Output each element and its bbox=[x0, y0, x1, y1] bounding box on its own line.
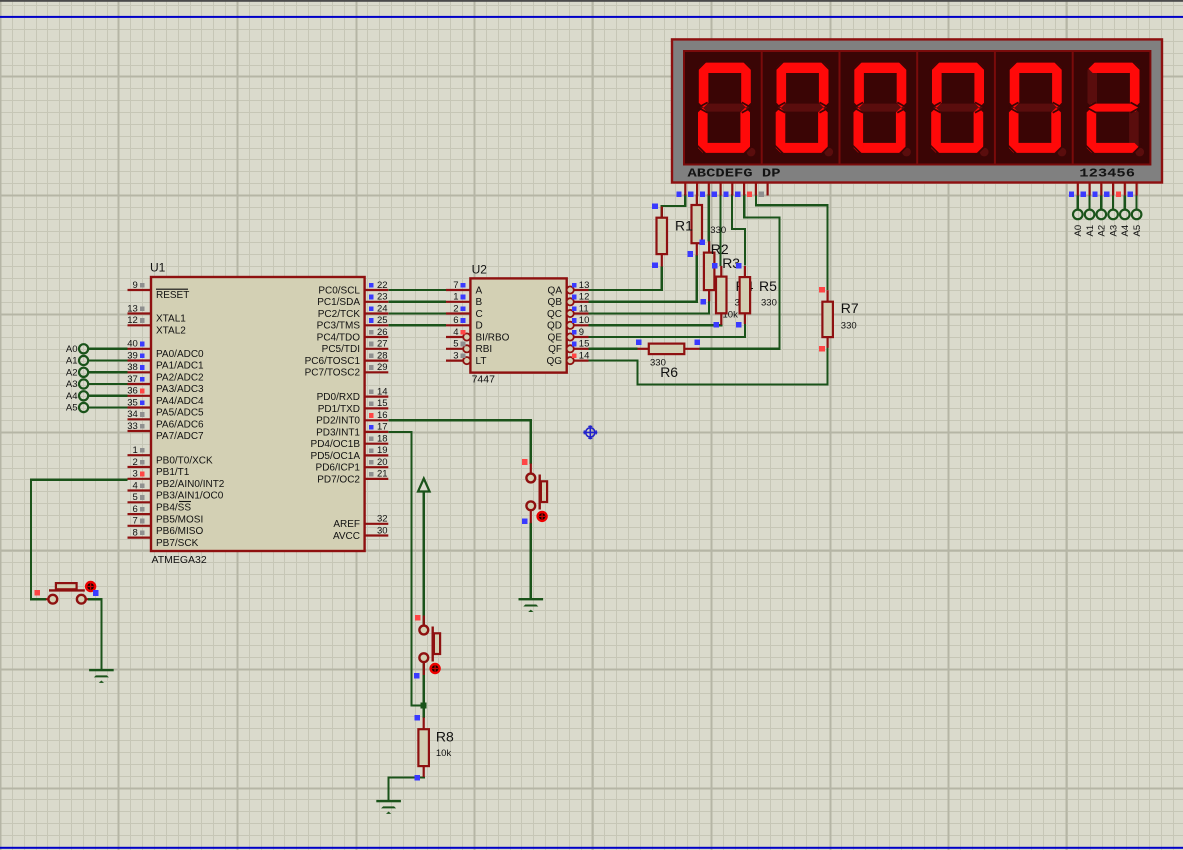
svg-text:A1: A1 bbox=[1085, 225, 1096, 237]
svg-text:9: 9 bbox=[133, 280, 138, 291]
SW2 state square (top) bbox=[522, 459, 528, 465]
wire button1 to ground bbox=[88, 599, 101, 669]
display segment pin C bbox=[700, 183, 709, 197]
wire display E to R4 bbox=[732, 194, 745, 266]
svg-text:3: 3 bbox=[453, 350, 458, 361]
SW1 state square (left) bbox=[34, 590, 40, 596]
svg-text:33: 33 bbox=[127, 421, 138, 432]
svg-text:A3: A3 bbox=[66, 379, 78, 390]
terminal A5 (left) bbox=[66, 403, 128, 414]
svg-text:16: 16 bbox=[377, 410, 388, 421]
svg-text:QB: QB bbox=[548, 297, 563, 308]
state square R8 top bbox=[415, 715, 421, 721]
terminal A2 (left) bbox=[66, 368, 128, 379]
terminal A0 (right) bbox=[1073, 210, 1084, 237]
wire R3 to QD bbox=[589, 324, 722, 325]
U1 pin 7 (PB6/MISO) bbox=[128, 516, 204, 537]
wire junction to R8 bbox=[423, 706, 425, 718]
U1 pin 17 (PD3/INT1) bbox=[316, 422, 388, 439]
U1 pin 15 (PD1/TXD) bbox=[318, 398, 389, 415]
svg-text:13: 13 bbox=[579, 280, 590, 291]
svg-text:A4: A4 bbox=[66, 391, 78, 402]
U1 pin 40 (PA0/ADC0) bbox=[127, 339, 204, 360]
IC U2 7447 body bbox=[470, 263, 566, 386]
svg-text:26: 26 bbox=[377, 327, 388, 338]
terminal A5 (right) bbox=[1132, 210, 1143, 237]
U2 pin 13 (QA) bbox=[548, 280, 590, 297]
wire R8 to ground bbox=[389, 777, 424, 801]
svg-text:PA2/ADC2: PA2/ADC2 bbox=[156, 373, 204, 384]
state square R3 top bbox=[712, 263, 718, 269]
state square R7 bottom bbox=[819, 346, 825, 352]
svg-text:5: 5 bbox=[133, 492, 138, 503]
resistor R4 (segment E) bbox=[740, 266, 751, 324]
svg-text:A4: A4 bbox=[1120, 225, 1131, 237]
svg-text:LT: LT bbox=[476, 356, 487, 367]
state square QB net bbox=[688, 251, 694, 257]
wire display A to RA bbox=[662, 194, 686, 217]
svg-text:R6: R6 bbox=[660, 364, 678, 380]
svg-text:37: 37 bbox=[127, 374, 138, 385]
wire junction at PD3/SW3/R8 bbox=[421, 703, 427, 709]
U1 pin 29 (PC7/TOSC2) bbox=[305, 362, 389, 379]
svg-text:QE: QE bbox=[548, 332, 563, 343]
svg-text:A: A bbox=[476, 285, 483, 296]
U1 pin 32 (AREF) bbox=[333, 514, 388, 531]
svg-text:12: 12 bbox=[127, 315, 138, 326]
svg-text:4: 4 bbox=[133, 480, 138, 491]
wire U1.PD3 to junction bbox=[388, 432, 423, 706]
U1 pin 25 (PC3/TMS) bbox=[317, 315, 389, 332]
U1 pin 13 (XTAL1) bbox=[127, 303, 186, 324]
svg-text:A3: A3 bbox=[1109, 225, 1120, 237]
svg-text:QA: QA bbox=[548, 285, 563, 296]
U1 pin 19 (PD5/OC1A) bbox=[311, 445, 389, 462]
U1 pin 27 (PC5/TDI) bbox=[322, 339, 389, 356]
display digit-select pin 6 bbox=[1128, 183, 1137, 210]
U1 pin 36 (PA4/ADC4) bbox=[127, 386, 204, 407]
svg-text:30: 30 bbox=[377, 525, 388, 536]
U1 pin 3 (PB2/AIN0/INT2) bbox=[128, 469, 225, 490]
svg-text:330: 330 bbox=[841, 321, 857, 332]
state square R7 top bbox=[819, 287, 825, 293]
svg-text:B: B bbox=[476, 297, 483, 308]
svg-text:34: 34 bbox=[127, 409, 138, 420]
wire U1.PD2 to button2 bbox=[388, 420, 531, 464]
push button SW1 (horizontal) bbox=[46, 582, 95, 604]
wire R1 to QB bbox=[589, 255, 697, 302]
display segment pin F bbox=[735, 183, 744, 197]
svg-text:A1: A1 bbox=[66, 356, 78, 367]
terminal A3 (left) bbox=[66, 379, 128, 390]
U1 pin 26 (PC4/TDO) bbox=[317, 327, 389, 344]
display digit 1 showing 0 bbox=[697, 60, 756, 156]
svg-text:1: 1 bbox=[453, 292, 458, 303]
svg-text:13: 13 bbox=[127, 303, 138, 314]
state square RA bottom bbox=[652, 262, 658, 268]
svg-text:22: 22 bbox=[377, 280, 388, 291]
7-segment display 6-digit module bbox=[672, 39, 1162, 182]
svg-text:PB3/AIN1/OC0: PB3/AIN1/OC0 bbox=[156, 491, 224, 502]
svg-text:PC0/SCL: PC0/SCL bbox=[318, 285, 360, 296]
push button SW2 (vertical) bbox=[526, 464, 547, 524]
resistor R6 bbox=[637, 344, 699, 380]
svg-text:A2: A2 bbox=[66, 368, 78, 379]
svg-text:PC5/TDI: PC5/TDI bbox=[322, 344, 360, 355]
display segment pin DP bbox=[759, 183, 768, 197]
display digit-select pin 3 bbox=[1092, 183, 1101, 210]
display digit-select pin 2 bbox=[1081, 183, 1090, 210]
svg-text:23: 23 bbox=[377, 292, 388, 303]
ground for R8 bbox=[376, 800, 401, 814]
svg-text:PB5/MOSI: PB5/MOSI bbox=[156, 514, 203, 525]
U1 pin 22 (PC0/SCL) bbox=[318, 280, 388, 297]
svg-text:2: 2 bbox=[453, 303, 458, 314]
U2 pin 12 (QB) bbox=[548, 292, 590, 309]
U1 pin 35 (PA5/ADC5) bbox=[127, 397, 204, 418]
U1 pin 34 (PA6/ADC6) bbox=[127, 409, 204, 430]
wire R2 to QC bbox=[589, 301, 710, 314]
svg-text:28: 28 bbox=[377, 350, 388, 361]
svg-text:330: 330 bbox=[761, 298, 777, 309]
display label 123456 bbox=[1079, 168, 1135, 181]
svg-text:11: 11 bbox=[579, 303, 589, 314]
svg-text:19: 19 bbox=[377, 445, 388, 456]
svg-text:BI/RBO: BI/RBO bbox=[476, 332, 510, 343]
wire U1.PC1 to U2.B bbox=[388, 301, 446, 303]
svg-text:12: 12 bbox=[579, 292, 590, 303]
svg-text:4: 4 bbox=[453, 327, 458, 338]
svg-text:AREF: AREF bbox=[333, 519, 360, 530]
wire U1.PB2 to button1 bbox=[31, 480, 128, 599]
svg-text:14: 14 bbox=[377, 386, 388, 397]
terminal A2 (right) bbox=[1097, 210, 1108, 237]
wire U1.PC0 to U2.A bbox=[388, 289, 446, 291]
SW3 state square (top) bbox=[415, 615, 421, 621]
display label ABCDEFG DP bbox=[688, 168, 781, 181]
SW3 state square (bottom) bbox=[414, 673, 420, 679]
svg-text:21: 21 bbox=[377, 469, 388, 480]
display digit 5 showing 0 bbox=[995, 51, 1066, 165]
wire U2.QG to R7 bbox=[589, 348, 828, 385]
svg-text:PD1/TXD: PD1/TXD bbox=[318, 404, 360, 415]
svg-text:U2: U2 bbox=[472, 263, 488, 277]
svg-text:7: 7 bbox=[453, 280, 458, 291]
U1 pin 14 (PD0/RXD) bbox=[317, 386, 389, 403]
svg-text:6: 6 bbox=[453, 315, 458, 326]
svg-text:PC6/TOSC1: PC6/TOSC1 bbox=[305, 356, 361, 367]
resistor R1 bbox=[675, 195, 726, 256]
svg-text:7447: 7447 bbox=[472, 374, 496, 386]
svg-text:29: 29 bbox=[377, 362, 388, 373]
display digit-select pin 5 bbox=[1116, 183, 1125, 210]
SW2 state square (bottom) bbox=[522, 518, 528, 524]
U2 pin 10 (QD) bbox=[547, 315, 589, 332]
state square R1 bottom bbox=[700, 239, 706, 245]
wire power to button3 bbox=[423, 492, 425, 625]
state square R4 bottom bbox=[736, 322, 742, 328]
U2 pin 15 (QF) bbox=[548, 339, 589, 356]
svg-text:PA5/ADC5: PA5/ADC5 bbox=[156, 408, 204, 419]
sheet border line bottom bbox=[0, 847, 1183, 849]
svg-text:R1: R1 bbox=[675, 218, 693, 234]
svg-text:PA1/ADC1: PA1/ADC1 bbox=[156, 361, 204, 372]
svg-text:PD7/OC2: PD7/OC2 bbox=[317, 474, 360, 485]
svg-text:PD2/INT0: PD2/INT0 bbox=[316, 416, 360, 427]
svg-text:20: 20 bbox=[377, 457, 388, 468]
resistor R3 bbox=[716, 255, 740, 325]
state square seg A corner bbox=[652, 204, 658, 210]
display segment pin E bbox=[723, 183, 732, 197]
U2 pin 5 (RBI) bbox=[446, 339, 492, 356]
svg-text:PB6/MISO: PB6/MISO bbox=[156, 526, 203, 537]
U1 pin 1 (PB0/T0/XCK) bbox=[128, 445, 214, 466]
svg-text:QG: QG bbox=[546, 356, 562, 367]
svg-text:PC4/TDO: PC4/TDO bbox=[317, 332, 361, 343]
terminal A3 (right) bbox=[1108, 210, 1119, 237]
svg-text:XTAL1: XTAL1 bbox=[156, 314, 186, 325]
svg-text:PB7/SCK: PB7/SCK bbox=[156, 538, 199, 549]
display digit 3 showing 0 bbox=[840, 51, 911, 165]
wire U1.PC3 to U2.D bbox=[388, 324, 446, 326]
wire display C to R2 bbox=[708, 194, 710, 241]
display segment pin A bbox=[676, 183, 685, 197]
U1 pin 4 (PB3/AIN1/OC0) bbox=[128, 480, 224, 501]
svg-text:25: 25 bbox=[377, 315, 388, 326]
U1 pin 24 (PC2/TCK) bbox=[318, 303, 389, 320]
svg-text:QD: QD bbox=[547, 321, 562, 332]
U1 pin 33 (PA7/ADC7) bbox=[127, 421, 204, 442]
svg-text:PC3/TMS: PC3/TMS bbox=[317, 321, 361, 332]
resistor R5 label bbox=[759, 278, 777, 309]
svg-text:18: 18 bbox=[377, 434, 388, 445]
U1 pin 2 (PB1/T1) bbox=[128, 457, 190, 478]
svg-text:PA6/ADC6: PA6/ADC6 bbox=[156, 420, 204, 431]
state square R6 left bbox=[636, 340, 642, 346]
svg-text:RBI: RBI bbox=[476, 344, 493, 355]
wire R4 to QE bbox=[589, 324, 745, 338]
terminal A1 (left) bbox=[66, 356, 128, 367]
wire R7 to display G bbox=[756, 194, 828, 290]
svg-text:8: 8 bbox=[133, 527, 138, 538]
U1 pin 9 (RESET) bbox=[128, 280, 190, 301]
svg-text:PB2/AIN0/INT2: PB2/AIN0/INT2 bbox=[156, 479, 225, 490]
state square R8 bottom bbox=[414, 775, 420, 781]
svg-text:A5: A5 bbox=[1132, 225, 1143, 237]
svg-text:A0: A0 bbox=[1073, 225, 1084, 237]
svg-text:38: 38 bbox=[127, 362, 138, 373]
push button SW3 (vertical) bbox=[419, 616, 440, 676]
U1 pin 21 (PD7/OC2) bbox=[317, 469, 388, 486]
svg-text:QF: QF bbox=[548, 344, 562, 355]
svg-text:35: 35 bbox=[127, 397, 138, 408]
svg-text:PB4/SS: PB4/SS bbox=[156, 503, 191, 514]
svg-text:32: 32 bbox=[377, 514, 388, 525]
svg-text:PD3/INT1: PD3/INT1 bbox=[316, 427, 360, 438]
display digit 4 showing 0 bbox=[917, 51, 988, 165]
wire button3 to junction bbox=[423, 663, 425, 706]
svg-text:9: 9 bbox=[579, 327, 584, 338]
svg-text:7: 7 bbox=[133, 516, 138, 527]
svg-text:PA4/ADC4: PA4/ADC4 bbox=[156, 396, 204, 407]
svg-text:123456: 123456 bbox=[1079, 168, 1135, 181]
svg-text:15: 15 bbox=[377, 398, 388, 409]
svg-text:PA3/ADC3: PA3/ADC3 bbox=[156, 384, 204, 395]
svg-text:10k: 10k bbox=[436, 748, 452, 759]
svg-text:RESET: RESET bbox=[156, 290, 189, 301]
U2 pin 7 (A) bbox=[446, 280, 483, 297]
svg-text:XTAL2: XTAL2 bbox=[156, 326, 186, 337]
wire button2 to ground bbox=[530, 523, 532, 599]
svg-text:QC: QC bbox=[547, 309, 562, 320]
svg-text:PB1/T1: PB1/T1 bbox=[156, 467, 190, 478]
state square R6 right bbox=[695, 340, 701, 346]
SW1 state square (right) bbox=[93, 590, 99, 596]
svg-text:2: 2 bbox=[133, 457, 138, 468]
display digit 2 showing 0 bbox=[762, 51, 833, 165]
U2 pin 11 (QC) bbox=[547, 303, 589, 320]
sheet border line top bbox=[0, 16, 1183, 18]
power terminal (arrow up) bbox=[418, 479, 430, 492]
svg-text:R7: R7 bbox=[841, 300, 859, 316]
display segment pin D bbox=[712, 183, 721, 197]
wire U2.QA to RA bbox=[589, 267, 662, 291]
U2 pin 1 (B) bbox=[446, 292, 483, 309]
U1 pin 12 (XTAL2) bbox=[127, 315, 186, 336]
U2 pin 14 (QG) bbox=[546, 350, 589, 367]
U1 pin 16 (PD2/INT0) bbox=[316, 410, 388, 427]
svg-text:U1: U1 bbox=[150, 261, 166, 275]
svg-text:A2: A2 bbox=[1097, 225, 1108, 237]
svg-text:A0: A0 bbox=[66, 344, 78, 355]
U2 pin 9 (QE) bbox=[548, 327, 589, 344]
U1 pin 5 (PB4/SS) bbox=[128, 492, 192, 513]
svg-text:1: 1 bbox=[133, 445, 138, 456]
svg-text:C: C bbox=[476, 309, 483, 320]
wire U2.QF to R6 bbox=[589, 348, 638, 350]
svg-text:PD4/OC1B: PD4/OC1B bbox=[311, 439, 361, 450]
wire display B to R1 bbox=[696, 194, 698, 205]
svg-text:39: 39 bbox=[127, 350, 138, 361]
U2 pin 4 (BI/RBO) bbox=[446, 327, 510, 344]
U1 pin 28 (PC6/TOSC1) bbox=[305, 350, 389, 367]
svg-text:14: 14 bbox=[579, 350, 590, 361]
svg-text:ATMEGA32: ATMEGA32 bbox=[152, 554, 207, 566]
resistor R8 bbox=[418, 718, 454, 778]
svg-text:R5: R5 bbox=[759, 278, 777, 294]
svg-text:PD0/RXD: PD0/RXD bbox=[317, 392, 360, 403]
resistor RA (segment A) bbox=[657, 207, 668, 267]
U1 pin 8 (PB7/SCK) bbox=[128, 527, 199, 548]
svg-text:AVCC: AVCC bbox=[333, 531, 360, 542]
U1 pin 6 (PB5/MOSI) bbox=[128, 504, 204, 525]
sheet top dark edge bbox=[0, 0, 1183, 2]
wire display D to R3 bbox=[719, 194, 721, 266]
svg-text:5: 5 bbox=[453, 339, 458, 350]
svg-text:PD5/OC1A: PD5/OC1A bbox=[311, 451, 361, 462]
state square QB corner bbox=[700, 299, 706, 305]
svg-text:3: 3 bbox=[133, 469, 138, 480]
terminal A1 (right) bbox=[1085, 210, 1096, 237]
ground for SW2 bbox=[519, 598, 544, 612]
display segment pin B bbox=[688, 183, 697, 197]
U1 pin 38 (PA2/ADC2) bbox=[127, 362, 204, 383]
svg-text:27: 27 bbox=[377, 339, 388, 350]
resistor R2 bbox=[704, 241, 729, 301]
svg-text:36: 36 bbox=[127, 386, 138, 397]
svg-text:15: 15 bbox=[579, 339, 590, 350]
display digit 6 showing 2 bbox=[1073, 51, 1144, 165]
svg-text:R8: R8 bbox=[436, 729, 454, 745]
svg-text:PD6/ICP1: PD6/ICP1 bbox=[316, 463, 361, 474]
svg-text:10: 10 bbox=[579, 315, 590, 326]
ground for SW1 bbox=[89, 669, 114, 683]
U1 pin 18 (PD4/OC1B) bbox=[311, 434, 389, 451]
svg-text:A5: A5 bbox=[66, 403, 78, 414]
svg-text:6: 6 bbox=[133, 504, 138, 515]
resistor R7 bbox=[822, 290, 859, 348]
state square R4 top bbox=[736, 263, 742, 269]
display digit-select pin 1 bbox=[1069, 183, 1078, 210]
U2 pin 6 (D) bbox=[446, 315, 483, 332]
U1 pin 30 (AVCC) bbox=[333, 525, 388, 542]
svg-text:24: 24 bbox=[377, 303, 388, 314]
terminal A4 (right) bbox=[1120, 210, 1131, 237]
U1 pin 20 (PD6/ICP1) bbox=[316, 457, 389, 474]
display digit-select pin 4 bbox=[1104, 183, 1113, 210]
svg-text:PC1/SDA: PC1/SDA bbox=[317, 297, 360, 308]
svg-text:PA7/ADC7: PA7/ADC7 bbox=[156, 431, 204, 442]
svg-text:PA0/ADC0: PA0/ADC0 bbox=[156, 349, 204, 360]
U2 pin 3 (LT) bbox=[446, 350, 486, 367]
U1 pin 37 (PA3/ADC3) bbox=[127, 374, 204, 395]
origin marker crosshair bbox=[583, 425, 597, 439]
svg-text:PB0/T0/XCK: PB0/T0/XCK bbox=[156, 455, 213, 466]
svg-text:PC7/TOSC2: PC7/TOSC2 bbox=[305, 368, 361, 379]
display segment pin G bbox=[747, 183, 756, 197]
svg-text:40: 40 bbox=[127, 339, 138, 350]
U1 pin 23 (PC1/SDA) bbox=[317, 292, 388, 309]
svg-text:17: 17 bbox=[377, 422, 388, 433]
U2 pin 2 (C) bbox=[446, 303, 483, 320]
IC U1 ATMEGA32 body bbox=[150, 261, 365, 567]
U1 pin 39 (PA1/ADC1) bbox=[127, 350, 204, 371]
terminal A0 (left) bbox=[66, 344, 128, 355]
terminal A4 (left) bbox=[66, 391, 128, 402]
svg-text:330: 330 bbox=[710, 225, 726, 236]
wire U1.PC2 to U2.C bbox=[388, 312, 446, 314]
wire display F to R6 net bbox=[700, 194, 780, 349]
state square QD junction bbox=[713, 322, 719, 328]
svg-text:PC2/TCK: PC2/TCK bbox=[318, 309, 361, 320]
resistor R4 label (partially hidden) bbox=[735, 278, 754, 309]
svg-text:ABCDEFG DP: ABCDEFG DP bbox=[688, 168, 781, 181]
svg-text:D: D bbox=[476, 321, 483, 332]
resistor R3 value 10k (partially hidden) bbox=[723, 310, 739, 321]
